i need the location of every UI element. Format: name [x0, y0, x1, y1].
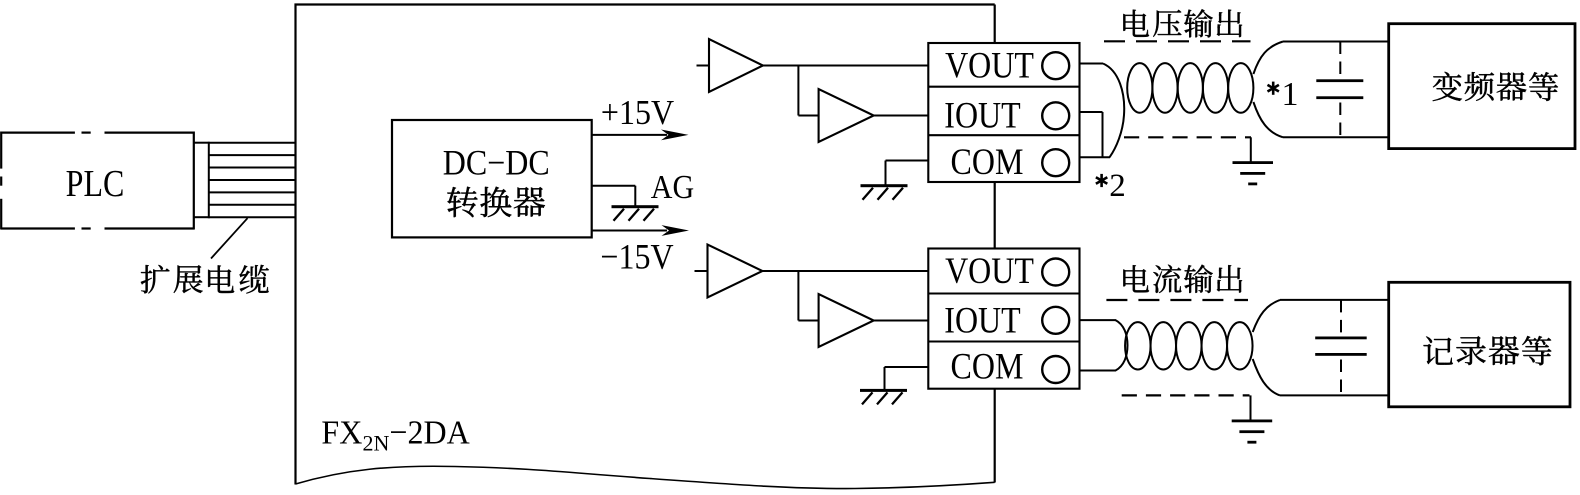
op-amp buffer A3 (voltage, ch2): [708, 245, 763, 298]
shield dashed line (ch2): [1122, 394, 1250, 396]
label current output (dianliu shuchu): [1123, 265, 1242, 293]
cable exit bell top (ch2): [1253, 300, 1280, 332]
wire cable bottom to inverter box: [1283, 136, 1389, 138]
wire +15V with arrow: [592, 130, 689, 141]
svg-text:VOUT: VOUT: [945, 45, 1034, 86]
wire A1 output to VOUT terminal: [763, 65, 928, 67]
terminal circle VOUT (TB2): [1042, 259, 1069, 286]
cable entry bell (ch2): [1116, 320, 1128, 370]
svg-text:COM: COM: [951, 346, 1024, 387]
terminal circle IOUT (TB2): [1042, 307, 1069, 334]
capacitor C1 plates: [1316, 79, 1363, 99]
terminal circle VOUT (TB1): [1042, 52, 1069, 79]
wire A2 output to IOUT terminal: [874, 115, 929, 117]
wire cable bottom to recorder box: [1280, 394, 1389, 396]
terminal circle IOUT (TB1): [1042, 102, 1069, 129]
shield dashed line (ch1): [1124, 136, 1251, 138]
cable entry bell (ch1): [1103, 64, 1124, 158]
svg-text:IOUT: IOUT: [944, 95, 1020, 136]
wire junction down to A2 input: [797, 66, 799, 116]
shield capacitor C1 dashed leads: [1339, 42, 1341, 138]
wire IOUT (TB1) jumper to COM wire (*2): [1080, 112, 1103, 157]
wire A4 output to IOUT terminal (TB2): [874, 320, 929, 322]
shield capacitor C2 dashed leads: [1340, 300, 1342, 396]
recorder load box: [1389, 282, 1570, 407]
op-amp buffer A2 (current, ch1): [819, 89, 874, 142]
label voltage output (dianya shuchu): [1123, 9, 1242, 37]
cable exit bell bottom (ch2): [1253, 359, 1280, 395]
cable exit bell top (ch1): [1253, 42, 1283, 75]
twisted pair loops (ch2): [1125, 322, 1253, 369]
svg-text:PLC: PLC: [66, 162, 125, 204]
twisted pair loops (ch1): [1127, 63, 1253, 113]
ground for COM (TB1): [861, 184, 908, 200]
wire AG tap: [592, 186, 636, 206]
shield earth ground (ch1): [1233, 161, 1274, 185]
wire into A2: [798, 115, 818, 117]
capacitor C2 plates: [1315, 337, 1367, 356]
svg-text:2N: 2N: [363, 431, 390, 456]
op-amp buffer A4 (current, ch2): [819, 294, 874, 347]
wire COM (TB2) to cable: [1080, 370, 1117, 372]
label DC-DC converter: [443, 144, 550, 217]
inverter load box: [1389, 24, 1575, 149]
label *2: [1096, 168, 1126, 204]
op-amp buffer A1 (voltage, ch1): [709, 39, 763, 92]
dashed underline current output: [1106, 299, 1248, 301]
label expansion cable (kuozhan dianlan): [141, 265, 269, 294]
label *1: [1267, 76, 1298, 113]
wire cable top to inverter box: [1283, 41, 1389, 43]
PLC box (broken-edge rectangle): [1, 132, 194, 230]
wire COM (TB2) to ground: [885, 367, 929, 389]
wire A3 input stub: [695, 270, 708, 272]
terminal circle COM (TB2): [1042, 356, 1069, 383]
svg-text:COM: COM: [951, 142, 1024, 183]
dashed underline voltage output: [1104, 40, 1251, 42]
connector block on PLC: [194, 142, 209, 219]
svg-text:+15V: +15V: [601, 94, 674, 133]
wire COM (TB1) to ground: [886, 161, 929, 185]
wire junction down to A4 input: [797, 271, 799, 321]
terminal block TB1 (ch1): [928, 43, 1079, 182]
wire A3 output to VOUT terminal (TB2): [763, 270, 929, 272]
ground AG (analog ground): [612, 205, 659, 221]
wire into A4: [798, 320, 818, 322]
terminal circle COM (TB1): [1042, 149, 1069, 176]
ground for COM (TB2): [860, 389, 907, 405]
label inverter etc (bianpinqi deng): [1433, 72, 1558, 101]
svg-text:VOUT: VOUT: [945, 251, 1034, 292]
ribbon cable wires: [209, 143, 296, 218]
svg-text:IOUT: IOUT: [944, 300, 1020, 341]
svg-text:−15V: −15V: [600, 238, 674, 277]
shield ground stem (ch2): [1250, 395, 1252, 419]
cable exit bell bottom (ch1): [1253, 102, 1283, 137]
wire VOUT (TB1) to cable: [1080, 63, 1104, 65]
label recorder etc (jiluqi deng): [1423, 336, 1551, 365]
DC-DC converter box: [392, 120, 592, 237]
shield earth ground (ch2): [1232, 420, 1273, 444]
svg-text:2: 2: [1109, 168, 1126, 204]
wire cable top to recorder box: [1280, 299, 1389, 301]
leader line to expansion cable label: [211, 218, 248, 258]
svg-text:AG: AG: [651, 169, 694, 206]
terminal block TB2 (ch2): [928, 249, 1079, 389]
svg-text:−2DA: −2DA: [390, 414, 470, 452]
wire COM (TB1) to cable: [1080, 156, 1111, 158]
wire IOUT (TB2) to cable: [1080, 319, 1117, 321]
module outline FX2N-2DA box with wavy bottom: [295, 4, 995, 489]
wire A1 input stub: [697, 65, 710, 67]
svg-text:FX: FX: [321, 414, 362, 452]
shield ground stem (ch1): [1250, 137, 1252, 161]
svg-text:DC−DC: DC−DC: [443, 144, 550, 183]
label FX2N-2DA: [321, 414, 469, 456]
wire -15V with arrow: [592, 225, 689, 236]
svg-text:1: 1: [1282, 76, 1299, 113]
